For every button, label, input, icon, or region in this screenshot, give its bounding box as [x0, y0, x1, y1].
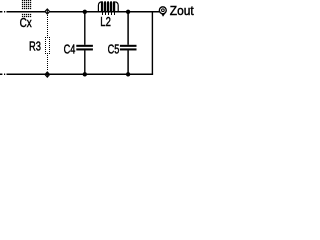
wire R3 bottom dotted lead	[47, 55, 48, 70]
node diamond top (junction to R3)	[45, 9, 50, 14]
capacitor C4	[76, 45, 93, 51]
svg-text:Cx: Cx	[20, 15, 32, 30]
svg-text:C5: C5	[108, 41, 120, 56]
node junction dot C5 bottom	[126, 72, 130, 76]
node junction dot C4 top	[83, 10, 87, 14]
node junction dot C5 top	[126, 10, 130, 14]
wire C5 lower lead	[127, 50, 129, 74]
wire bottom rail	[7, 73, 154, 75]
wire right vertical (output return)	[151, 12, 153, 75]
inductor L2	[96, 2, 120, 15]
capacitor Cx (dotted hatch block)	[22, 0, 31, 17]
terminal Zout	[159, 7, 166, 14]
node junction dot C4 bottom	[83, 72, 87, 76]
wire bottom rail dash-dot lead-in	[0, 73, 5, 75]
wire top rail	[7, 11, 160, 13]
wire C4 upper lead	[84, 12, 86, 45]
wire C4 lower lead	[84, 50, 86, 74]
svg-text:Zout: Zout	[170, 4, 194, 18]
svg-text:C4: C4	[64, 41, 76, 56]
node diamond bottom (R3 to ground rail)	[45, 72, 50, 77]
resistor R3 (dotted box)	[45, 37, 50, 54]
wire R3 top dotted lead	[47, 15, 48, 36]
capacitor C5	[120, 45, 137, 51]
svg-text:R3: R3	[29, 38, 41, 53]
wire C5 upper lead	[127, 12, 129, 45]
wire top rail dash-dot lead-in	[0, 11, 5, 13]
svg-text:L2: L2	[100, 14, 111, 29]
